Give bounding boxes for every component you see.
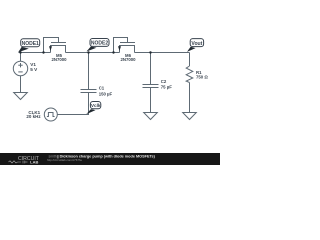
ground under V1	[14, 93, 28, 100]
node flag Vout	[187, 39, 204, 52]
label C2 75 uF	[161, 79, 172, 90]
M5 gate plate	[51, 42, 66, 44]
node flag Vclk	[86, 102, 101, 115]
label R1 750 Ohm	[196, 70, 208, 80]
svg-text:NODE2: NODE2	[91, 41, 108, 47]
svg-text:2N7000: 2N7000	[120, 57, 136, 62]
node flag NODE2	[87, 39, 110, 52]
label M5 2N7000	[51, 53, 67, 62]
wire V1 top lead	[20, 53, 22, 62]
svg-text:NODE1: NODE1	[22, 41, 39, 47]
wire C1 top lead	[88, 53, 90, 90]
svg-text:C2: C2	[161, 79, 167, 84]
junction dot M6 gate loop	[112, 51, 114, 53]
junction dot C1/top rail	[87, 51, 89, 53]
M5 channel	[50, 45, 66, 47]
svg-text:2N7000: 2N7000	[51, 57, 67, 62]
svg-text:750 Ω: 750 Ω	[196, 74, 208, 79]
voltage source V1	[13, 61, 27, 75]
wire CLK1 to C1	[57, 114, 89, 116]
wire C2 bottom lead	[150, 88, 152, 113]
transistor M5 (diode-connected NMOS)	[44, 38, 67, 53]
svg-text:5 V: 5 V	[30, 67, 38, 72]
capacitor C2	[143, 85, 159, 88]
wire V1 bottom lead	[20, 76, 22, 93]
label V1 5 V	[30, 62, 38, 72]
svg-text:LAB: LAB	[30, 160, 38, 165]
M5 drain lead	[50, 46, 52, 53]
svg-text:http://circuitlab.com/c767fw: http://circuitlab.com/c767fw	[47, 158, 83, 162]
wire M6 gate loop	[114, 38, 128, 53]
junction dot C2/top rail	[149, 51, 151, 53]
svg-text:Vout: Vout	[191, 41, 202, 47]
junction dot V1/top rail	[19, 51, 21, 53]
wire C1 bottom lead	[88, 93, 90, 115]
capacitor C1	[81, 90, 97, 93]
ground under C2	[144, 113, 158, 120]
wire top rail middle segment	[66, 52, 120, 54]
ground under R1	[183, 113, 197, 120]
svg-text:20 kHz: 20 kHz	[26, 114, 41, 119]
label C1 150 uF	[99, 86, 113, 97]
M6 drain lead	[119, 46, 121, 53]
wire top rail left segment	[19, 52, 51, 54]
wire R1 bottom lead	[189, 83, 191, 113]
M5 source lead	[65, 46, 67, 53]
svg-text:150 µF: 150 µF	[99, 91, 113, 96]
wire R1 top lead	[189, 53, 191, 67]
footer CircuitLab logo mini-schematic	[9, 161, 28, 164]
wire top rail right segment	[135, 52, 190, 54]
clock source CLK1	[44, 108, 57, 121]
label M6 2N7000	[120, 53, 136, 62]
svg-text:75 µF: 75 µF	[161, 85, 172, 90]
label CLK1 20 kHz	[26, 110, 41, 119]
svg-text:C1: C1	[99, 86, 105, 91]
M5 arrow	[49, 46, 52, 51]
M6 channel	[119, 45, 135, 47]
M6 gate plate	[120, 42, 135, 44]
svg-text:Vclk: Vclk	[91, 103, 101, 108]
wire M5 gate loop	[44, 38, 59, 53]
M6 arrow	[118, 46, 121, 51]
transistor M6 (diode-connected NMOS)	[114, 38, 136, 53]
node flag NODE1	[18, 39, 40, 53]
M6 source lead	[134, 46, 136, 53]
junction dot M5 gate loop	[42, 51, 44, 53]
footer bar	[0, 153, 220, 165]
resistor R1 zigzag	[186, 66, 193, 83]
wire C2 top lead	[150, 53, 152, 85]
